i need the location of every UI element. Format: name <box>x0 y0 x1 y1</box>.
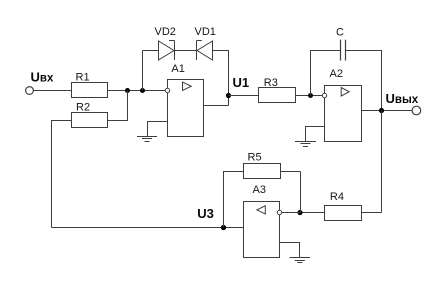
wire R1 to A1 input <box>108 90 166 92</box>
wire R2 right riser <box>108 91 128 121</box>
output bubble A3 <box>277 210 281 214</box>
wire A3 bubble to output node <box>282 212 300 214</box>
svg-text:A2: A2 <box>330 68 343 80</box>
svg-text:U3: U3 <box>197 206 214 221</box>
ground at A3 <box>290 258 311 263</box>
wire A3 output node to R4 <box>300 212 325 214</box>
wire A1 output stub <box>204 105 229 107</box>
terminal Uвх <box>26 87 34 95</box>
wire capacitor to output riser <box>346 51 382 111</box>
node dot Uвых <box>379 108 384 113</box>
wire VD1 to U1 riser <box>213 51 229 106</box>
wire riser A1 input to diodes <box>142 51 144 91</box>
wire U1 to R3 <box>229 95 259 97</box>
wire bottom rail to A3 input <box>52 227 244 229</box>
op-amp A1 <box>168 80 204 137</box>
svg-text:C: C <box>336 27 344 39</box>
inverting input bubble A2 <box>322 93 326 97</box>
wire Uвх to R1 <box>33 90 71 92</box>
wire A3 ground stub <box>280 243 300 258</box>
ground at A2 <box>295 142 316 147</box>
wire output riser to R4 <box>381 111 383 213</box>
inverting input bubble A1 <box>165 88 169 92</box>
wire A3 output node riser to R5 <box>300 172 302 213</box>
svg-text:Uвх: Uвх <box>31 70 54 85</box>
resistor R1 <box>72 83 108 98</box>
node dot U3 <box>221 225 226 230</box>
resistor R2 <box>72 113 108 128</box>
wire R3 to A2 input <box>296 95 323 97</box>
op-amp A2 <box>325 86 362 142</box>
svg-text:R4: R4 <box>330 191 344 203</box>
svg-text:R5: R5 <box>248 151 262 163</box>
node dot A3 output <box>297 210 302 215</box>
svg-text:U1: U1 <box>233 75 250 90</box>
node dot A2 input junction <box>308 93 313 98</box>
wire diode rail left <box>143 50 159 52</box>
resistor R4 <box>325 206 362 221</box>
wire R5 left down to U3 <box>224 172 244 228</box>
svg-text:A1: A1 <box>171 63 184 75</box>
svg-text:A3: A3 <box>253 184 266 196</box>
svg-text:R2: R2 <box>76 101 90 113</box>
wire A2 ground input stub <box>306 127 325 142</box>
wire A1 ground input stub <box>148 122 168 137</box>
diode VD2 <box>159 41 175 61</box>
node dot U1 <box>226 93 231 98</box>
capacitor C <box>341 40 346 61</box>
resistor R5 <box>244 164 281 179</box>
svg-text:R3: R3 <box>264 77 278 89</box>
op-amp A3 <box>244 202 280 258</box>
wire A2 output to Uвых <box>362 110 413 112</box>
wire VD2 to VD1 <box>175 50 197 52</box>
svg-text:R1: R1 <box>76 71 90 83</box>
svg-text:VD2: VD2 <box>155 26 176 38</box>
wire R4 to riser <box>362 212 382 214</box>
wire R5 right <box>281 171 301 173</box>
resistor R3 <box>259 88 296 103</box>
wire R2 left down to bottom rail <box>52 121 72 228</box>
svg-text:Uвых: Uвых <box>386 91 419 106</box>
wire riser A2 input to capacitor <box>311 51 341 96</box>
svg-text:VD1: VD1 <box>195 26 216 38</box>
ground at A1 <box>137 137 157 142</box>
diode VD1 <box>197 41 213 61</box>
node dot input/R2 junction <box>125 88 130 93</box>
terminal Uвых <box>412 106 421 115</box>
node dot input/diode junction <box>140 88 145 93</box>
